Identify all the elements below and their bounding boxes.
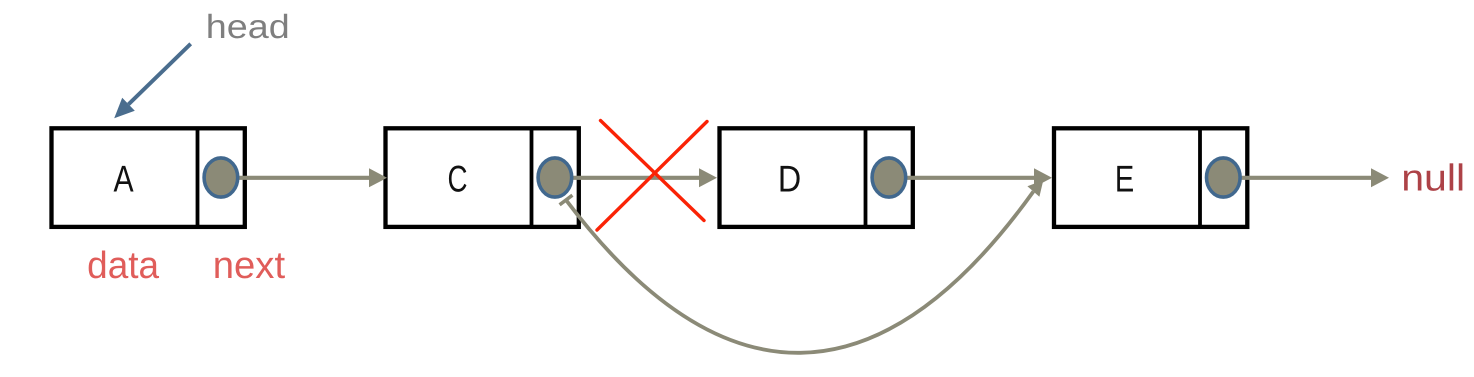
svg-text:A: A	[113, 157, 133, 199]
svg-text:next: next	[213, 245, 286, 287]
svg-text:D: D	[778, 157, 801, 199]
svg-text:head: head	[206, 9, 290, 46]
svg-text:null: null	[1401, 157, 1465, 199]
svg-text:data: data	[87, 245, 160, 287]
svg-text:C: C	[447, 157, 467, 199]
svg-text:E: E	[1115, 157, 1134, 199]
